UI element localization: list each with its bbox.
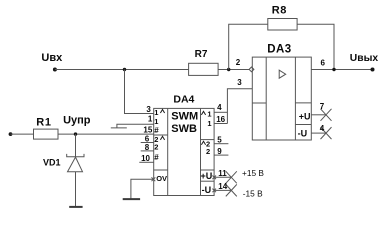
svg-text:R7: R7 (195, 49, 208, 60)
svg-text:8: 8 (145, 143, 150, 152)
DA3 amplifier triangle symbol (279, 70, 286, 78)
wire branch down to DA4 pin3 (125, 70, 154, 114)
DA4 left field cell line 2 (154, 169, 168, 171)
svg-text:+U: +U (299, 111, 311, 121)
svg-text:DA3: DA3 (267, 44, 292, 56)
svg-text:14: 14 (218, 182, 227, 191)
contact bar at pin1 (111, 127, 127, 129)
svg-text:2: 2 (154, 143, 158, 152)
DA4 right field cell line 1 (201, 139, 215, 141)
DA4 right field divider (200, 108, 202, 195)
DA4 right field cell line 2 (201, 169, 215, 171)
wire terminal to R1 (11, 133, 34, 135)
DA4 left field caret row4 (160, 136, 164, 140)
wire DA4 pin5 stub (214, 143, 228, 145)
svg-text:2: 2 (206, 147, 210, 156)
node junction Uupr / VD1 (74, 132, 77, 135)
analog switch DA4 body (154, 108, 214, 195)
ground bar under DA4 (123, 198, 140, 200)
svg-text:SWM: SWM (171, 111, 198, 123)
node junction output / R8 (332, 68, 335, 71)
wire DA4 pin4 (214, 111, 227, 113)
wire DA3 pin4 power stub (311, 132, 326, 134)
DA3 left field cell line (252, 102, 266, 104)
wire DA4 pin6 stub (141, 142, 154, 144)
output terminal Uvyx (371, 68, 375, 72)
wire DA3 output to Uvyx terminal (311, 69, 372, 71)
svg-text:1: 1 (154, 117, 158, 126)
svg-text:1: 1 (207, 109, 211, 118)
non-logic X mark DA4 -U pin (212, 189, 216, 193)
DA4 right field caret row1 (201, 111, 205, 115)
wire VD1 anode to ground (75, 172, 77, 207)
wire DA4 pin8 stub (141, 150, 154, 152)
wire DA4 pin14 to -15V (214, 189, 231, 191)
DA3 right field cell line mid (295, 124, 311, 126)
DA4 right field cell line 3 (201, 180, 215, 182)
DA4 left field cell line 1 (154, 134, 168, 136)
svg-text:4: 4 (320, 124, 325, 133)
wire DA4 pin9 stub (214, 154, 228, 156)
svg-text:Uвх: Uвх (41, 52, 63, 64)
DA3 inverting input diamond at pin2 (249, 67, 254, 72)
svg-text:+U: +U (201, 171, 213, 181)
svg-text:11: 11 (218, 169, 227, 178)
svg-text:-U: -U (298, 129, 308, 139)
svg-text:16: 16 (216, 115, 225, 124)
op-amp DA3 body (252, 57, 311, 140)
input terminal Uvx (53, 68, 57, 72)
control terminal Uupr (9, 132, 13, 136)
resistor R1 (34, 129, 59, 139)
svg-text:R8: R8 (272, 5, 287, 17)
DA3 right field divider (294, 57, 296, 140)
ground bar under VD1 (69, 206, 82, 208)
svg-text:-U: -U (202, 185, 212, 195)
wire R7 to DA3 pin2 (218, 69, 249, 71)
svg-text:SWB: SWB (171, 123, 197, 135)
svg-text:9: 9 (217, 147, 222, 156)
svg-text:DA4: DA4 (173, 94, 194, 106)
power connector X mark pin14 (226, 184, 237, 196)
wire node down to VD1 cathode (75, 134, 77, 157)
svg-text:2: 2 (236, 58, 241, 67)
node junction Uvx wire / DA4 pin3 branch (123, 68, 126, 71)
DA4 right field caret row3 (201, 141, 205, 145)
wire DA4 pin16 (214, 123, 227, 125)
svg-text:10: 10 (141, 154, 150, 163)
wire DA3 pin3 left and down to DA4 pins 4,16 (227, 89, 252, 124)
power connector X mark DA3 pin7 (321, 109, 332, 121)
non-logic X mark DA4 +U pin (212, 176, 216, 180)
svg-text:Uвых: Uвых (350, 53, 379, 64)
svg-text:#: # (154, 153, 159, 162)
resistor R8 (268, 19, 297, 31)
wire DA4 pin11 to +15V (214, 176, 231, 178)
svg-text:4: 4 (217, 103, 222, 112)
wire Uvx to R7 (55, 69, 189, 71)
power connector X mark DA3 pin4 (321, 127, 332, 139)
wire DA3 pin7 power stub (311, 114, 326, 116)
svg-text:OV: OV (156, 174, 167, 183)
DA4 left field caret row1 (160, 110, 164, 114)
svg-text:-15 В: -15 В (243, 188, 263, 198)
svg-text:1: 1 (154, 108, 158, 117)
wire R1 to DA4 pin15 (58, 133, 154, 135)
svg-text:1: 1 (207, 119, 211, 128)
svg-text:Uупр: Uупр (63, 115, 91, 127)
diode VD1 cathode bar with bent ends (67, 154, 84, 157)
svg-text:1: 1 (148, 115, 153, 124)
DA4 left field divider (167, 108, 169, 195)
wire DA4 0V pin to ground (131, 179, 154, 199)
DA3 right field cell line top (295, 102, 311, 104)
svg-text:3: 3 (146, 105, 151, 114)
wire node up to R8 left (229, 24, 268, 69)
svg-text:7: 7 (320, 102, 325, 111)
non-logic X mark at 0V pin (152, 177, 156, 181)
svg-text:VD1: VD1 (43, 158, 61, 168)
wire DA4 pin1 with open contact (117, 124, 154, 128)
svg-text:3: 3 (237, 78, 242, 87)
svg-text:5: 5 (217, 135, 222, 144)
svg-text:+15 В: +15 В (242, 168, 264, 178)
diode VD1 triangle (68, 157, 83, 172)
svg-text:R1: R1 (36, 117, 51, 129)
svg-text:6: 6 (321, 59, 326, 68)
node junction R7 / R8 / DA3 pin2 (227, 68, 230, 71)
wire DA4 pin10 stub (139, 161, 153, 163)
resistor R7 (189, 63, 219, 75)
power connector X mark pin11 (226, 171, 237, 183)
DA3 left field divider (265, 57, 267, 140)
wire R8 right down to output (297, 24, 334, 69)
